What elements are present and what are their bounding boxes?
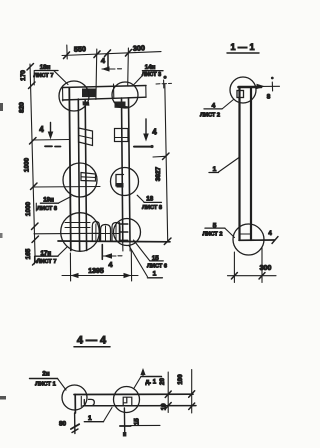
chain tick y140.5 (30, 138, 37, 145)
svg-text:170: 170 (20, 70, 27, 81)
svg-text:18: 18 (146, 196, 153, 203)
right member left line (122, 98, 123, 242)
dim 300 : ticks (231, 273, 237, 280)
right member tab inner (115, 137, 128, 139)
svg-text:4: 4 (39, 125, 44, 134)
callout 18 list8 : leader (137, 195, 144, 202)
callout 5 list2 : leader (225, 228, 235, 237)
detail circle C8 side-bottom (233, 224, 264, 255)
callout 18 list8 : underline (144, 201, 161, 203)
svg-text:300: 300 (133, 43, 145, 52)
title 1-1 underline (227, 52, 259, 54)
dim 1395 : line (62, 275, 138, 277)
detail circle C1 top-left (59, 81, 89, 111)
side bottom tick (272, 237, 278, 244)
top member top line (63, 86, 147, 88)
left member outer line (69, 88, 71, 251)
svg-text:1000: 1000 (25, 201, 32, 216)
dim 300 : line (228, 275, 277, 277)
right dims : inner ticks (165, 391, 171, 398)
callout 18n list7 : underline (35, 70, 58, 72)
callout 19n list8 : underline (40, 202, 58, 204)
title 4-4 underline (74, 346, 110, 348)
section bottom line (83, 405, 196, 407)
arch 3 mullions (112, 224, 120, 240)
top member bottom line (63, 97, 147, 100)
extension line x97 down to member (95, 49, 98, 99)
side member left line (238, 88, 240, 241)
svg-text:о: о (164, 75, 167, 80)
section left cap (74, 395, 76, 414)
hanging line right blob (123, 432, 127, 437)
section top line (74, 393, 193, 395)
top member stub x113.5 (113, 84, 115, 98)
dim 300 : extension right (261, 247, 263, 283)
C5 inner shelf lines (65, 222, 90, 224)
dim 1395 : arrowheads (71, 273, 79, 278)
callout 2n list1 : underline (30, 378, 58, 380)
svg-text:20: 20 (159, 378, 166, 385)
arch 2 (101, 225, 111, 241)
extension x128.5 down (127, 48, 130, 86)
detail circle C2 top-right (112, 82, 138, 108)
svg-text:820: 820 (19, 102, 26, 113)
hanging line left (74, 413, 76, 434)
svg-text:4: 4 (101, 56, 106, 65)
side member right line (250, 88, 252, 241)
side bottom closure lower / base line (239, 239, 275, 241)
callout 15 list6 : leader (134, 240, 150, 261)
dim 1395 : extension left (69, 253, 71, 281)
svg-text:19н: 19н (43, 197, 54, 204)
svg-text:10: 10 (160, 403, 167, 410)
arch 1 (92, 222, 99, 241)
svg-text:д. 1: д. 1 (146, 380, 157, 386)
bottom stub left b (79, 242, 81, 251)
dim 3927 : short ext y156 (153, 155, 166, 158)
svg-text:1395: 1395 (88, 268, 104, 275)
extension 550 left (66, 45, 68, 59)
detail circle C10 section-mid (114, 387, 140, 413)
callout 14n list3 : leader (134, 77, 142, 85)
callout 15 list6 : underline (150, 260, 163, 262)
right dims : outer ticks (189, 391, 195, 398)
tick 550 left (64, 52, 70, 59)
tick 300 left (126, 50, 132, 57)
flag d1 : bar (141, 376, 162, 378)
callout 18n list7 : box left edge (33, 71, 35, 86)
label 1 section : underline (84, 421, 103, 423)
stray dot (150, 145, 153, 148)
section marker 4 right-mid : bar (134, 146, 152, 148)
section left lip curl (84, 399, 94, 405)
top member right cap (145, 86, 147, 97)
callout 19n list8 : box left (35, 203, 37, 211)
svg-text:4: 4 (268, 231, 272, 237)
top member weld blob (82, 89, 97, 98)
left member inner line (85, 100, 86, 251)
flag d1 : leader (134, 377, 141, 389)
svg-text:3927: 3927 (155, 166, 162, 181)
bottom stub right b (129, 242, 131, 251)
hanging line right (123, 408, 125, 432)
section marker 4 right-mid : vertical arrow (145, 119, 147, 136)
svg-text:15: 15 (134, 418, 141, 425)
svg-text:1: 1 (88, 415, 92, 422)
detail circle C5 bottom-left (61, 213, 100, 252)
svg-text:165: 165 (25, 248, 32, 259)
svg-text:2н: 2н (42, 370, 49, 377)
C6 E-shape (120, 223, 128, 241)
callout 19n list8 : leader (59, 197, 72, 204)
chain tick y85.5 (29, 82, 36, 89)
callout 1 : underline (147, 277, 162, 279)
section marker 4 top : tail dash (118, 68, 122, 70)
chain tick y262 (33, 259, 40, 266)
callout 4 list2 : leader (222, 100, 234, 110)
label 1 mid : leader (219, 158, 240, 173)
detail circle C6 bottom-right (114, 219, 141, 246)
label 1 mid : underline (209, 172, 219, 174)
svg-text:ЛИСТ 3: ЛИСТ 3 (142, 72, 161, 78)
section marker 4 top : arrow left (102, 68, 115, 70)
section marker 4 top : vertical line (107, 54, 109, 71)
dim 3927 : tick y241 (164, 238, 171, 245)
callout 17n list7 : box left (34, 256, 36, 264)
section mid curl (123, 397, 132, 406)
svg-text:ЛИСТ 8: ЛИСТ 8 (142, 205, 162, 211)
side bottom closure upper (240, 233, 252, 235)
svg-text:4: 4 (152, 128, 157, 137)
detail circle C7 side-top (230, 77, 256, 103)
chain tick y226 (32, 223, 39, 230)
bottom stub left a (70, 242, 72, 251)
chain tick y239 (32, 236, 39, 243)
dim 3927 : top cross tick (163, 80, 165, 88)
svg-text:ЛИСТ 2: ЛИСТ 2 (203, 231, 223, 237)
dim line y425.6 (131, 424, 160, 426)
detail circle C4 mid-right (111, 168, 139, 196)
extension line y233.5 (34, 232, 99, 235)
left member tab1 (79, 128, 93, 146)
top dimension line (62, 52, 161, 56)
hanging line left hatch (71, 424, 79, 429)
left member middle line (78, 99, 79, 251)
svg-text:300: 300 (260, 265, 272, 272)
right member z-step (116, 175, 124, 187)
arch 2 mullions (101, 226, 111, 241)
svg-text:ЛИСТ 7: ЛИСТ 7 (34, 73, 54, 79)
left member tab1 inner (79, 136, 93, 139)
side top arrow line (253, 85, 280, 87)
hanging line right crossbar (120, 425, 131, 427)
detail circle C3 mid-left (63, 163, 97, 197)
flag d1 : arrow up (142, 370, 144, 377)
dim 3927 : tick y156 (163, 153, 170, 160)
svg-text:100: 100 (177, 374, 184, 385)
section marker 4 bottom : vertical (101, 245, 103, 260)
dim 3927 : top dashes (156, 83, 160, 85)
chain tick y67 (27, 64, 34, 71)
callout 5 list2 : underline (205, 227, 225, 229)
side top cross tick (271, 82, 273, 91)
svg-text:ЛИСТ 6: ЛИСТ 6 (147, 264, 167, 270)
callout 2n list1 : leader (58, 379, 67, 391)
right member right line (129, 98, 131, 242)
callout 4 list2 : underline (204, 108, 222, 110)
left member top tab (83, 101, 90, 106)
section left inner vertical (80, 396, 82, 406)
bottom stub right a (122, 242, 124, 251)
section marker 4 bottom : tail (118, 255, 122, 257)
dim 300 : extension left (233, 252, 235, 283)
tick 550 right (94, 51, 100, 58)
extension line y186.5 (33, 186, 100, 189)
svg-text:ЛИСТ 1: ЛИСТ 1 (35, 382, 56, 388)
right dims : inner vline (167, 372, 169, 413)
extension line y140 (32, 139, 69, 142)
edge speck 2 (0, 396, 6, 400)
svg-text:80: 80 (59, 421, 67, 428)
section marker 4 bottom : arrow left (103, 255, 116, 257)
svg-text:550: 550 (74, 44, 86, 53)
dim 3927 : line (165, 84, 168, 241)
tick mid x107 (105, 50, 111, 57)
right member tab (115, 129, 129, 142)
right member z-step blob (117, 183, 124, 188)
right dims : outer vline (191, 370, 193, 414)
right member weld blob (115, 102, 129, 109)
callout 18n list7 : leader (54, 71, 68, 85)
svg-text:ЛИСТ 2: ЛИСТ 2 (200, 113, 220, 119)
chain tick y186 (31, 183, 38, 190)
top member left cap (62, 86, 64, 101)
svg-text:14н: 14н (145, 64, 156, 71)
callout 17n list7 : leader (58, 247, 67, 256)
callout 1 : leader (129, 245, 148, 276)
svg-text:8: 8 (267, 94, 271, 101)
left member tab2 inner (82, 176, 96, 179)
edge speck 1 (0, 103, 3, 111)
base line y241.5 (58, 240, 170, 243)
left dim chain : vertical line (30, 64, 35, 262)
section marker 4 left-mid : dashes (45, 145, 52, 147)
svg-text:1000: 1000 (24, 157, 31, 172)
side top hook (237, 91, 244, 98)
left member tab2 (81, 173, 96, 182)
side top dot (271, 77, 274, 80)
dim 1395 : extension right (130, 250, 132, 281)
arch 3 (112, 223, 120, 241)
svg-text:1: 1 (153, 270, 157, 277)
callout 17n list7 : underline (35, 255, 58, 257)
svg-text:1 — 1: 1 — 1 (230, 42, 254, 52)
label 1 section : leader (104, 408, 113, 422)
section marker 4 left-mid : arrow down (50, 123, 52, 135)
edge speck 3 (0, 233, 3, 238)
svg-text:ЛИСТ 7: ЛИСТ 7 (37, 259, 57, 265)
svg-text:4: 4 (108, 260, 113, 269)
detail circle C9 section-left (62, 385, 87, 410)
svg-text:ЛИСТ 8: ЛИСТ 8 (37, 206, 57, 212)
callout 14n list3 : underline (142, 70, 163, 72)
svg-text:4 — 4: 4 — 4 (77, 335, 107, 347)
arch 1 mullions (93, 224, 100, 240)
side member top bar (239, 86, 262, 89)
